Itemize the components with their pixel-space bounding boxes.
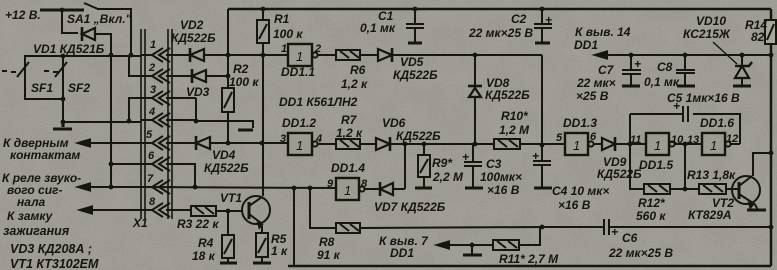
svg-text:3: 3 <box>280 133 286 145</box>
svg-text:2: 2 <box>148 62 155 74</box>
resistor R6 <box>336 50 360 60</box>
svg-text:1: 1 <box>296 138 303 153</box>
svg-text:+: + <box>611 225 618 239</box>
wire corner to timing node <box>541 55 543 146</box>
ground on pin7-GND line <box>471 245 473 254</box>
svg-text:91 к: 91 к <box>317 248 341 262</box>
node VD8 top <box>473 53 478 58</box>
diode VD5 <box>378 49 392 61</box>
top +12 rail <box>228 8 771 11</box>
wire x310 drop to R8 <box>310 188 336 228</box>
transistor VT2 <box>732 176 760 204</box>
svg-text:7: 7 <box>147 173 154 185</box>
svg-text:1,2 к: 1,2 к <box>336 126 363 140</box>
svg-text:×25 В: ×25 В <box>576 89 609 103</box>
connector pin 1 <box>141 48 172 62</box>
resistor R14 <box>765 20 776 44</box>
switch SF1 <box>2 71 16 72</box>
svg-text:C3: C3 <box>486 157 502 171</box>
svg-text:DD1.6: DD1.6 <box>700 116 734 130</box>
svg-text:VD3: VD3 <box>186 85 210 99</box>
diode VD6 <box>376 138 390 150</box>
wire pin11 riser to R12 <box>630 144 644 189</box>
wire trigger node vertical R1/DD1.1/DD1.2/VT1 <box>262 55 264 196</box>
capacitor C5 feedback <box>630 114 740 144</box>
svg-text:DD1.2: DD1.2 <box>282 116 316 130</box>
resistor R8 <box>336 223 360 233</box>
resistor R1 <box>257 20 269 43</box>
svg-text:DD1.1: DD1.1 <box>281 65 315 79</box>
wire horn-relay line pin7 <box>78 186 141 188</box>
resistor R9 <box>418 155 430 177</box>
wire +12V entry <box>40 9 84 12</box>
resistor R7 <box>336 139 360 149</box>
svg-text:8: 8 <box>149 196 156 208</box>
svg-text:VD6: VD6 <box>382 116 406 130</box>
resistor R3 <box>191 206 216 216</box>
wire pin4 line <box>63 121 141 123</box>
connector pin 5 <box>141 136 172 150</box>
svg-text:6: 6 <box>590 131 597 143</box>
svg-text:C7: C7 <box>598 63 615 77</box>
wire VD7 riser <box>404 144 406 189</box>
connector pin 2 <box>141 69 172 83</box>
svg-text:5: 5 <box>146 129 153 141</box>
diode VD9 <box>602 138 615 150</box>
svg-text:1,2 к: 1,2 к <box>341 77 368 91</box>
svg-text:VD5: VD5 <box>400 55 424 69</box>
capacitor C2 <box>534 9 552 42</box>
svg-text:+: + <box>532 149 539 163</box>
capacitor C4 <box>533 146 551 187</box>
svg-text:100 к: 100 к <box>229 75 259 89</box>
svg-text:+: + <box>673 99 680 113</box>
wire node 10-13 riser <box>684 144 686 189</box>
svg-text:1: 1 <box>573 138 580 153</box>
node junction +12 <box>60 8 65 13</box>
svg-text:1,2 М: 1,2 М <box>499 123 530 137</box>
svg-text:6: 6 <box>148 150 155 162</box>
capacitor C6 <box>604 219 609 235</box>
svg-text:SF1: SF1 <box>31 81 53 95</box>
svg-text:нала: нала <box>17 195 46 209</box>
svg-text:10: 10 <box>671 134 684 146</box>
svg-text:18 к: 18 к <box>192 249 216 263</box>
svg-text:DD1.5: DD1.5 <box>639 158 673 172</box>
logic gate DD1.5 <box>646 133 669 155</box>
svg-text:VD4: VD4 <box>212 148 236 162</box>
svg-text:DD1: DD1 <box>390 246 414 260</box>
capacitor C8 <box>676 55 695 85</box>
svg-text:2: 2 <box>314 43 321 55</box>
diode VD4 <box>172 142 196 144</box>
svg-text:КТ829А: КТ829А <box>688 208 732 222</box>
svg-text:1: 1 <box>296 49 303 64</box>
svg-text:R4: R4 <box>198 236 214 250</box>
svg-text:+: + <box>462 150 469 164</box>
svg-text:C2: C2 <box>511 12 527 26</box>
svg-text:×16 В: ×16 В <box>558 198 591 212</box>
svg-text:C8: C8 <box>657 60 673 74</box>
svg-text:DD1: DD1 <box>574 38 598 52</box>
resistor R13 <box>699 184 726 194</box>
svg-text:4: 4 <box>315 133 322 145</box>
svg-text:1: 1 <box>344 183 351 198</box>
svg-text:22 мк×25 В: 22 мк×25 В <box>468 26 533 40</box>
svg-text:9: 9 <box>327 178 334 190</box>
svg-text:R12*: R12* <box>638 196 666 210</box>
svg-text:1: 1 <box>710 138 717 153</box>
logic gate DD1.3 <box>565 133 588 155</box>
resistor R11 <box>493 240 519 250</box>
wire pin2 drop <box>129 56 141 76</box>
svg-text:VT1: VT1 <box>220 191 242 205</box>
svg-text:22 мк×: 22 мк× <box>576 76 616 90</box>
label leader VD10 <box>713 42 737 64</box>
svg-text:КД522Б: КД522Б <box>485 88 530 102</box>
svg-text:8: 8 <box>361 178 368 190</box>
resistor R4 <box>227 211 229 235</box>
svg-text:R9*: R9* <box>432 156 453 170</box>
svg-text:SA1 „Вкл.": SA1 „Вкл." <box>67 12 132 26</box>
wire stabilized supply line <box>595 54 771 56</box>
resistor R5 <box>261 226 263 233</box>
svg-text:X1: X1 <box>132 216 148 230</box>
svg-text:R8: R8 <box>319 235 335 249</box>
logic gate DD1.1 <box>288 44 312 66</box>
logic gate DD1.2 <box>288 133 312 155</box>
wire pin3 hook left <box>129 98 141 121</box>
svg-text:R11* 2,7 М: R11* 2,7 М <box>499 252 559 266</box>
svg-text:VT1 КТ3102ЕМ: VT1 КТ3102ЕМ <box>10 257 99 270</box>
svg-text:13: 13 <box>687 134 699 146</box>
svg-text:+: + <box>545 13 552 27</box>
wire pin6 stub <box>111 163 141 165</box>
svg-text:SF2: SF2 <box>68 81 90 95</box>
capacitor C3 <box>464 144 482 187</box>
wire top-left riser to rail <box>227 9 229 88</box>
ground bar right of R2 <box>238 129 253 132</box>
svg-text:560 к: 560 к <box>636 209 666 223</box>
svg-text:82: 82 <box>751 30 765 44</box>
svg-text:VD2: VD2 <box>180 18 204 32</box>
svg-text:R2: R2 <box>233 62 249 76</box>
svg-text:R7: R7 <box>341 113 358 127</box>
svg-text:контактам: контактам <box>10 148 80 162</box>
resistor R12 <box>644 184 670 194</box>
diode VD1 <box>62 10 78 33</box>
svg-text:0,1 мк: 0,1 мк <box>360 21 396 35</box>
svg-text:КД522Б: КД522Б <box>393 68 438 82</box>
svg-text:12: 12 <box>726 133 738 145</box>
diode VD2 <box>172 54 190 56</box>
connector pin 8 <box>141 203 172 217</box>
svg-text:22 мк×25 В: 22 мк×25 В <box>608 246 673 260</box>
wire main line to pin 1 <box>24 55 141 57</box>
svg-text:DD1.3: DD1.3 <box>563 116 597 130</box>
zener VD10 <box>741 55 743 66</box>
svg-text:DD1 К561ЛН2: DD1 К561ЛН2 <box>279 95 358 109</box>
wire door-contacts line pin5 <box>78 142 141 144</box>
resistor R10 <box>494 139 520 149</box>
svg-text:0,1 мк: 0,1 мк <box>644 75 680 89</box>
wire pin9 line from pin7 net <box>141 187 336 188</box>
svg-text:×16 В: ×16 В <box>487 183 520 197</box>
svg-text:КС215Ж: КС215Ж <box>683 27 731 41</box>
svg-text:11: 11 <box>630 134 641 146</box>
wire VD1 vertical feed <box>110 55 112 187</box>
svg-text:зажигания: зажигания <box>3 224 70 238</box>
svg-text:VD3 КД208А ;: VD3 КД208А ; <box>10 242 92 256</box>
diode VD7 <box>379 182 382 196</box>
connector pin 7 <box>141 180 172 194</box>
diode VD3 <box>172 75 192 77</box>
svg-text:C6: C6 <box>622 231 638 245</box>
diode VD8 <box>469 88 481 97</box>
svg-text:4: 4 <box>148 106 155 118</box>
svg-text:КД522Б: КД522Б <box>204 161 249 175</box>
svg-text:1 к: 1 к <box>271 244 288 258</box>
svg-text:КД522Б: КД522Б <box>396 129 441 143</box>
svg-text:R10*: R10* <box>501 109 529 123</box>
svg-text:VD1 КД521Б: VD1 КД521Б <box>33 42 105 56</box>
switch SA1 <box>84 3 98 9</box>
switch SF2 <box>44 71 58 72</box>
connector pin 6 <box>141 157 172 171</box>
svg-text:DD1.4: DD1.4 <box>331 161 365 175</box>
connector pin 3 <box>141 91 172 105</box>
bottom supply rail <box>288 265 771 268</box>
svg-text:1: 1 <box>281 43 287 55</box>
svg-text:КД522Б: КД522Б <box>171 31 216 45</box>
svg-text:+: + <box>634 57 641 71</box>
wire x294 drop to bottom rail <box>293 188 295 266</box>
svg-text:C4 10 мк×: C4 10 мк× <box>552 184 609 198</box>
svg-text:1: 1 <box>654 138 661 153</box>
connector pin 4 <box>141 113 172 127</box>
svg-text:3: 3 <box>150 84 156 96</box>
svg-text:К выв. 14: К выв. 14 <box>575 25 631 39</box>
svg-text:R6: R6 <box>350 63 366 77</box>
logic gate DD1.6 <box>702 133 725 155</box>
svg-text:R3 22 к: R3 22 к <box>177 217 219 231</box>
svg-text:2,2 М: 2,2 М <box>432 170 464 184</box>
svg-text:К замку: К замку <box>7 209 54 223</box>
svg-text:VD7 КД522Б: VD7 КД522Б <box>374 200 446 214</box>
logic gate DD1.4 <box>336 178 359 200</box>
capacitor C1 <box>406 9 424 42</box>
svg-text:5: 5 <box>556 132 563 144</box>
transistor VT1 <box>242 196 270 224</box>
resistor R2 <box>222 88 234 112</box>
svg-text:R13 1,8к: R13 1,8к <box>687 168 736 182</box>
capacitor C7 <box>622 55 641 85</box>
connector X1 plates <box>141 29 172 219</box>
svg-text:1: 1 <box>150 39 156 51</box>
svg-text:VD10: VD10 <box>696 14 726 28</box>
right edge rail <box>770 9 773 266</box>
wire R11 branch <box>519 227 540 245</box>
svg-text:R1: R1 <box>274 12 290 26</box>
wire pin6 drop to pin7 <box>172 164 195 187</box>
ground under SF2 <box>53 122 72 129</box>
wire pins 3-4 ground line <box>172 98 196 121</box>
svg-text:КД522Б: КД522Б <box>597 167 642 181</box>
wire R1 to DD1.1 <box>228 54 288 56</box>
svg-text:100 к: 100 к <box>273 27 303 41</box>
svg-text:+12 В.: +12 В. <box>5 8 41 22</box>
wire ignition line pin8 <box>80 209 141 211</box>
svg-text:100мк×: 100мк× <box>480 170 522 184</box>
